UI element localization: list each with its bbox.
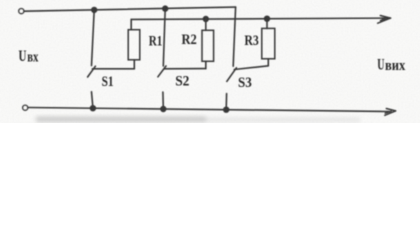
wire S1 to R1 bottom <box>92 68 134 70</box>
node junction bus J4 <box>265 16 270 21</box>
node junction bottom D1 <box>91 106 96 111</box>
wire R3 bottom stub <box>267 59 269 66</box>
node junction top J2 <box>163 6 168 11</box>
wire bottom <box>28 108 389 112</box>
node junction top J1 <box>92 7 97 12</box>
resistor R3 <box>262 28 275 58</box>
arrow top output <box>378 16 391 24</box>
switch S2 fixed contact wire <box>163 9 165 66</box>
node junction bottom D3 <box>224 107 229 112</box>
wire R2 top stub <box>205 19 207 30</box>
wire R1 top stub <box>130 19 132 29</box>
wire S2 lower <box>162 92 164 109</box>
wire S3 lower <box>225 94 227 110</box>
wire bus B (tops of resistors to output arrow) <box>131 18 389 19</box>
paper grain <box>0 0 420 123</box>
node junction bottom D2 <box>161 107 166 112</box>
wire top (input to jog) <box>24 7 235 11</box>
switch S3 blade <box>227 68 237 82</box>
scan smudge bottom <box>36 117 360 123</box>
wire R2 bottom stub <box>205 61 207 68</box>
switch S2 blade <box>158 66 166 77</box>
terminal circle bottom-left <box>23 105 28 110</box>
wire S3 to R3 bottom <box>234 66 268 70</box>
resistor R2 <box>202 30 214 61</box>
wire S1 lower <box>92 92 93 108</box>
resistor R1 <box>128 30 140 60</box>
wire R3 top stub <box>266 19 268 29</box>
wire jog vertical to bus <box>233 7 235 66</box>
wire S2 to R2 bottom <box>164 68 206 70</box>
switch S1 fixed contact wire <box>92 10 95 66</box>
wire R1 bottom stub <box>133 60 135 69</box>
switch S1 blade <box>88 66 96 77</box>
terminal circle top-left <box>19 9 24 14</box>
node junction bus J3 <box>203 17 208 22</box>
arrow bottom output <box>385 109 396 116</box>
